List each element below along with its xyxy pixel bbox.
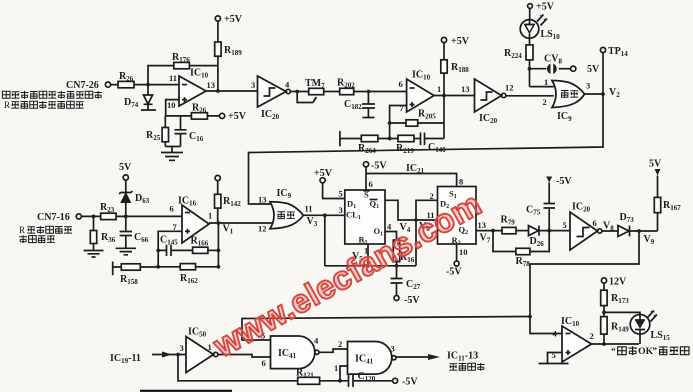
svg-text:6: 6 [262, 358, 266, 368]
resistor R189 + power +5V [215, 14, 243, 91]
wire IC50 out to NAND1 pin6 [218, 355, 271, 358]
resistor R176 (feedback) [148, 52, 218, 85]
resistor R166 [191, 236, 219, 254]
resistor R158 + T terminal [113, 262, 159, 287]
svg-text:5V: 5V [649, 159, 662, 170]
svg-text:5: 5 [339, 189, 343, 199]
svg-text:8: 8 [459, 177, 463, 187]
svg-text:5V: 5V [119, 162, 132, 173]
svg-text:+5V: +5V [228, 111, 247, 122]
wire output IC10b [434, 95, 475, 97]
wire FF1 R pin down [367, 244, 369, 266]
resistor R78 (parallel path) [493, 231, 549, 268]
schmitt buffer IC20 (second) [475, 79, 506, 125]
svg-text:11: 11 [305, 204, 313, 214]
svg-text:3: 3 [180, 343, 184, 353]
wire pin10 input [166, 100, 179, 116]
svg-text:6: 6 [399, 79, 403, 89]
svg-text:-5V: -5V [404, 295, 420, 306]
annotation: R相交流旁路 [19, 225, 72, 235]
wire V8 [602, 230, 618, 232]
wire output vertical (R166/R162 join) [217, 223, 219, 267]
svg-text:+5V: +5V [536, 2, 555, 13]
svg-text:+5V: +5V [451, 36, 470, 47]
resistor R173 [601, 290, 630, 316]
flip-flop IC21a box [345, 190, 385, 247]
svg-text:5: 5 [552, 350, 556, 360]
svg-text:R: R [4, 100, 10, 110]
node CN7-26 label [66, 80, 111, 91]
op-amp IC10 (first) [179, 68, 209, 107]
wire Q1bar to FF2 CL (pin 11) [385, 200, 438, 220]
svg-text:13: 13 [461, 84, 470, 94]
wire IC16 output V1 [209, 222, 273, 224]
resistor R121 [178, 355, 349, 385]
NAND gate IC41 (second) [348, 342, 397, 375]
resistor R162 [158, 264, 218, 285]
svg-text:2: 2 [543, 97, 547, 107]
capacitor C182 [344, 92, 375, 118]
power +5V (FF1 D input) [314, 168, 345, 199]
svg-text:1: 1 [437, 84, 441, 94]
wire V2 long feedback line to lower XOR pin13 [249, 94, 604, 204]
capacitor C75 + -5V arrow [526, 176, 572, 231]
wire pin7 input + feedback vertical [390, 106, 407, 139]
annotation: 电源信号 [19, 235, 55, 243]
resistor R149 [601, 317, 630, 344]
wire op-amp output [206, 90, 258, 92]
ground (pin 5) [539, 353, 569, 364]
wire D2 from reset node [416, 200, 438, 265]
op-amp IC16 [178, 196, 209, 244]
svg-text:“: “ [611, 346, 616, 357]
resistor R205 [390, 109, 444, 127]
node IC19-11 input label [110, 352, 186, 366]
resistor R219 [396, 135, 421, 155]
svg-text:3: 3 [251, 80, 255, 90]
svg-text:11: 11 [169, 73, 177, 83]
svg-text:”: ” [652, 346, 657, 357]
resistor R79 [501, 215, 529, 234]
NAND gate IC41 (first) [271, 336, 320, 369]
svg-text:3: 3 [391, 344, 395, 354]
wire -5V rail to FF2 pin 8 [366, 174, 457, 187]
ground (below R25/C16) [161, 147, 183, 161]
svg-text:12: 12 [258, 224, 267, 234]
power 12V [601, 277, 627, 291]
zener D63 + 5V [119, 162, 150, 216]
LED LS10 + power +5V [520, 2, 560, 42]
capacitor C16 [175, 116, 204, 147]
svg-text:3: 3 [339, 205, 343, 215]
svg-text:-5V: -5V [402, 377, 418, 388]
wire long feedback to NAND pin5 [242, 317, 530, 341]
svg-text:2: 2 [430, 191, 434, 201]
schmitt buffer IC20 (third) [570, 202, 602, 251]
diode D73 [618, 212, 658, 237]
svg-text:6: 6 [369, 179, 373, 189]
wire IC20b out to XOR pin2 [506, 95, 554, 97]
annotation: source text line 2 (R + 8 hanzi) [4, 100, 84, 110]
svg-text:12: 12 [505, 83, 514, 93]
capacitor C66 [120, 216, 149, 248]
svg-text:1: 1 [334, 363, 338, 373]
svg-text:-5V: -5V [446, 267, 462, 278]
XOR gate IC9 (upper half) [552, 81, 585, 124]
resistor R142 [215, 175, 242, 223]
svg-text:13: 13 [207, 80, 216, 90]
svg-text:1: 1 [208, 342, 212, 352]
wire V3 down to reset node [324, 215, 326, 266]
wire output to inverter annotation [396, 351, 478, 363]
svg-text:6: 6 [593, 218, 597, 228]
capacitor C120 + -5V [349, 371, 419, 388]
op-amp IC10 (second) [407, 70, 434, 113]
wire pin7 input loop [158, 231, 182, 266]
svg-text:CN7-16: CN7-16 [37, 212, 70, 223]
wire Q2 output V7 [476, 230, 502, 232]
annotation: "同步OK" 指示灯 [611, 346, 689, 357]
svg-text:2: 2 [338, 339, 342, 349]
resistor R188 + +5V [441, 36, 470, 139]
svg-text:-5V: -5V [556, 176, 572, 187]
op-amp IC10 (sync comparator) [561, 316, 592, 362]
node CN7-16 label [37, 212, 81, 223]
wire CV8 node to XOR pin1 [530, 86, 554, 88]
resistor R26 (input) [118, 71, 134, 88]
wire comparator output [592, 343, 640, 345]
svg-text:5V: 5V [587, 64, 600, 75]
XOR gate IC9 (lower half) [270, 188, 303, 229]
ground (R36) [84, 251, 104, 258]
potentiometer TM7 [297, 78, 325, 103]
svg-text:12V: 12V [609, 277, 627, 288]
resistor R16 [393, 240, 414, 266]
svg-text:6: 6 [170, 204, 174, 214]
resistor R167 + 5V arrow [649, 159, 681, 232]
wire NAND1 out to NAND2 pin2 [319, 349, 348, 352]
flip-flop IC21b box [438, 187, 477, 247]
wire input row 2 [81, 215, 182, 217]
svg-text:+5V: +5V [224, 14, 243, 25]
wire XOR out / node V2 [585, 93, 604, 95]
feedback chain: T terminal [340, 131, 361, 146]
svg-text:10: 10 [167, 100, 176, 110]
svg-text:1: 1 [544, 77, 548, 87]
svg-text:2: 2 [590, 331, 594, 341]
wire 12V divider to LED top [604, 312, 640, 314]
test point TP14 [600, 46, 628, 94]
capacitor C145 [158, 235, 192, 257]
diode D26 [529, 226, 571, 248]
node junction input [146, 83, 150, 87]
resistor R224 [504, 38, 533, 86]
schmitt buffer IC20 (first) [258, 76, 291, 121]
ground (C66) [116, 248, 136, 255]
wire O1 output V4 [385, 232, 397, 241]
capacitor CV8 [530, 54, 601, 76]
wire junction up to NAND2 pin1 [340, 366, 348, 381]
wire XOR2 output V3 to FF1 CL [303, 214, 345, 216]
wire reset node row V5 [325, 265, 416, 267]
capacitor C140 [421, 133, 447, 155]
svg-text:10: 10 [459, 247, 468, 257]
scan bottom-left artifact line [140, 390, 232, 392]
svg-text:3: 3 [586, 81, 590, 91]
resistor R23 [100, 202, 116, 220]
svg-text:5: 5 [563, 220, 567, 230]
resistor R264 [358, 135, 398, 155]
resistor R202 [324, 78, 407, 95]
wire input row [111, 84, 179, 86]
svg-text:1: 1 [208, 211, 212, 221]
wire FF2 R pin 10 to -5V [446, 244, 468, 278]
annotation: source text line 1 (11 hanzi) [2, 91, 102, 99]
wire IC20 out to TM7 [290, 91, 308, 93]
resistor R25 [146, 116, 169, 147]
svg-text:13: 13 [258, 195, 267, 205]
wire V9 down to sync comparator [530, 231, 639, 334]
diode D74 [124, 85, 156, 110]
power -5V (FF set rail) [363, 161, 387, 191]
resistor R26 (to +5V) [166, 103, 247, 123]
LED LS15 [630, 311, 670, 345]
inverter IC50 [186, 327, 218, 373]
svg-text:R: R [19, 225, 25, 235]
svg-text:CN7-26: CN7-26 [66, 80, 99, 91]
resistor R36 [90, 216, 115, 250]
capacitor C27 + -5V [391, 266, 421, 306]
svg-text:-5V: -5V [371, 161, 387, 172]
annotation: 送逆变器 [449, 363, 484, 371]
